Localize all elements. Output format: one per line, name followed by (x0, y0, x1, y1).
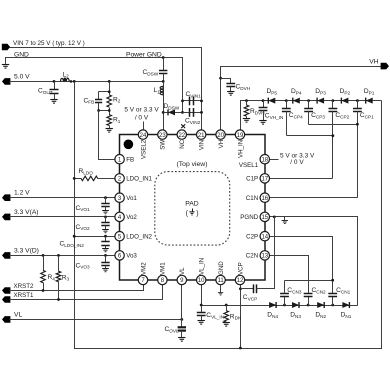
ground COUT (50, 100, 57, 104)
svg-text:XRST2: XRST2 (14, 283, 35, 290)
wire 5.0 V line (10, 81, 164, 83)
node XRST2 output terminal (2, 287, 10, 294)
junction VCP at CVCP (239, 287, 242, 290)
pin 24 circle (138, 130, 147, 139)
junction VL_IN node (200, 304, 203, 307)
node 3.3 V(D) output terminal (2, 252, 10, 259)
svg-text:3.3 V(A): 3.3 V(A) (14, 209, 39, 216)
svg-text:10: 10 (198, 278, 205, 284)
wire R2 top node bracket (109, 82, 111, 95)
ground CVO3 (102, 269, 109, 272)
junction RDVH tap (245, 99, 248, 102)
pin 20 circle (216, 130, 225, 139)
svg-text:NC: NC (179, 139, 186, 148)
pin 6 circle (115, 251, 124, 260)
wire XRST2 line to pin 7 VM2 (10, 281, 144, 291)
junction R3 top (57, 254, 60, 257)
svg-text:VCP: VCP (237, 262, 244, 275)
wire pin 9 VL riser (181, 281, 183, 327)
resistor RDVH (246, 101, 248, 106)
pin 5 circle (115, 232, 124, 241)
node VIN input terminal (2, 44, 10, 51)
pin 8 circle (158, 275, 167, 284)
svg-text:VL_IN: VL_IN (199, 258, 206, 275)
pin 16 circle (260, 193, 269, 202)
wire pin 17 C1P line (265, 178, 333, 180)
capacitor CCN1 (332, 297, 334, 306)
svg-text:20: 20 (217, 133, 224, 139)
ground RDN (223, 323, 230, 327)
ground CVL_IN (198, 321, 205, 325)
wire FB mid node (99, 110, 110, 112)
junction 5V feed at LDO_IN1 (73, 177, 76, 180)
ground GND input (2, 65, 9, 69)
node 1.2 V output terminal (2, 194, 10, 201)
junction FB node right (108, 109, 111, 112)
capacitor CDSW (163, 58, 165, 71)
svg-text:VH: VH (218, 140, 225, 149)
pin 15 circle (260, 212, 269, 221)
diode DP3 (317, 98, 324, 104)
wire pin 14 C2P line (265, 237, 333, 294)
svg-text:5 V or 3.3 V: 5 V or 3.3 V (124, 106, 159, 113)
pin 2 circle (115, 174, 124, 183)
pin 21 circle (197, 130, 206, 139)
junction pump node CCP1 (356, 99, 359, 102)
pin 9 circle (177, 275, 186, 284)
ground RDVH (243, 119, 250, 123)
capacitor CVO1 (105, 198, 107, 204)
junction CVO1 tap (104, 196, 107, 199)
svg-text:FB: FB (126, 157, 134, 164)
capacitor CCP1 (357, 101, 359, 109)
junction PGND at CVCP riser (273, 216, 276, 219)
wire pump bus CCP4-CCP2 to C1P (287, 135, 333, 137)
svg-text:11: 11 (217, 278, 224, 284)
svg-text:VIN: VIN (199, 140, 206, 150)
svg-text:3.3 V(D): 3.3 V(D) (14, 247, 39, 254)
pin 13 circle (260, 251, 269, 260)
node VH output terminal (381, 63, 389, 70)
ground R1 (106, 129, 113, 133)
svg-text:21: 21 (198, 133, 205, 139)
junction VCP riser at 5V bus (239, 347, 242, 350)
ground CDVH (227, 92, 234, 96)
junction bus at CCN1 column (331, 279, 334, 282)
junction pump node CCN1 (331, 304, 334, 307)
resistor RLDO (81, 176, 98, 181)
resistor R1 (107, 115, 112, 126)
capacitor CCP4 (286, 101, 288, 109)
svg-text:14: 14 (261, 234, 268, 240)
svg-text:Power GND: Power GND (126, 52, 162, 59)
junction SW at DDSW (162, 111, 165, 114)
wire FB sense to pin 1 (99, 111, 120, 160)
svg-text:18: 18 (261, 157, 268, 163)
node VL output terminal (2, 316, 10, 323)
wire GND / Power GND rail (6, 58, 183, 113)
wire pin 2 LDO_IN1 line (75, 178, 82, 180)
junction bus at CCP2 column (332, 134, 335, 137)
capacitor CCN2 (308, 297, 310, 306)
capacitor CVO3 (105, 256, 107, 263)
svg-text:17: 17 (261, 177, 268, 183)
diode DN2 (317, 302, 324, 308)
capacitor COVL (178, 327, 186, 330)
svg-text:VSEL1: VSEL1 (239, 162, 259, 169)
wire VH rail from pin 20 (221, 67, 382, 131)
pin 23 circle (158, 130, 167, 139)
wire pin 4 Vo2 line (10, 216, 120, 218)
pin 3 circle (115, 193, 124, 202)
pin 7 circle (138, 275, 147, 284)
junction SW column at Power GND (162, 56, 165, 59)
wire 5V vertical feed to LDO inputs and bottom bus (75, 82, 382, 349)
wire pin 18 VSEL1 stub (265, 159, 279, 161)
junction pump node CCP4 (285, 99, 288, 102)
wire pin 11 GND stub (220, 281, 222, 293)
junction R4 at XRST2 (42, 289, 45, 292)
inductor L2 (61, 78, 70, 81)
diode DP5 (268, 98, 275, 104)
svg-text:VM1: VM1 (160, 262, 167, 275)
node 3.3 V(A) output terminal (2, 214, 10, 221)
wire pin 15 PGND line to DN chain (265, 217, 358, 306)
svg-text:VM2: VM2 (140, 262, 147, 275)
ground PGND stub (284, 217, 286, 221)
svg-text:): ) (196, 210, 198, 217)
svg-text:23: 23 (159, 133, 166, 139)
svg-text:PGND: PGND (240, 214, 258, 221)
node XRST1 output terminal (2, 296, 10, 303)
ground pin 11 GND (218, 293, 223, 296)
junction on 5V line at COUT (53, 80, 56, 83)
node exposed PAD dashed outline (155, 172, 230, 246)
pin 17 circle (260, 174, 269, 183)
pin 18 circle (260, 155, 269, 164)
wire pin 3 Vo1 line (10, 197, 120, 199)
svg-text:22: 22 (178, 133, 185, 139)
resistor R3 pull-up (58, 256, 60, 272)
svg-text:XRST1: XRST1 (14, 292, 35, 299)
pin 10 circle (197, 275, 206, 284)
resistor R2 (107, 95, 112, 107)
diode DN4 (269, 302, 276, 308)
svg-text:/ 0 V: / 0 V (135, 114, 149, 121)
capacitor CVCP (241, 288, 254, 290)
svg-text:PAD: PAD (185, 201, 199, 208)
capacitor CDVH (221, 79, 231, 84)
junction FB node left (97, 109, 100, 112)
svg-text:GND: GND (218, 261, 225, 275)
junction 5V line at FB divider (108, 80, 111, 83)
capacitor CVL_IN (201, 306, 203, 313)
svg-text:C2P: C2P (246, 234, 258, 241)
svg-text:LDO_IN2: LDO_IN2 (126, 234, 152, 241)
svg-text:5.0 V: 5.0 V (14, 74, 30, 81)
pin 11 circle (216, 275, 225, 284)
ground CVO2 (102, 230, 109, 233)
capacitor CVO2 (105, 217, 107, 223)
svg-text:16: 16 (261, 196, 268, 202)
inductor L1 (163, 82, 165, 87)
svg-text:19: 19 (237, 133, 244, 139)
junction pump node CCN2 (307, 304, 310, 307)
junction SW column at 5V line (162, 80, 165, 83)
capacitor CVH_IN (263, 101, 265, 108)
junction bus at CCP1 column (356, 123, 359, 126)
ground CLDO_IN2 (102, 249, 109, 252)
capacitor CVIN1 (183, 100, 202, 102)
svg-text:VL: VL (179, 267, 186, 275)
diode DP4 (293, 98, 300, 104)
junction CVIN1 left (181, 100, 184, 103)
svg-text:24: 24 (140, 133, 147, 139)
resistor RDN (226, 306, 228, 311)
svg-text:1.2 V: 1.2 V (14, 190, 30, 197)
svg-text:15: 15 (261, 215, 268, 221)
ground CVO1 (102, 211, 109, 214)
svg-text:Vo2: Vo2 (126, 214, 137, 221)
diode DN3 (292, 302, 299, 308)
svg-text:SW: SW (160, 140, 167, 150)
wire pump bus CCP3-CCP1 to C1N (309, 124, 358, 126)
capacitor COUT (54, 82, 56, 90)
junction CVO2 tap (104, 216, 107, 219)
pin 1 circle (115, 155, 124, 164)
junction CVIN1 right (200, 100, 203, 103)
wire pin 16 C1N line (265, 197, 358, 199)
capacitor CCP3 (308, 101, 310, 109)
wire pin 13 C2N line (265, 256, 309, 294)
svg-text:12: 12 (237, 278, 244, 284)
pin 4 circle (115, 212, 124, 221)
junction RDN tap (225, 304, 228, 307)
svg-text:VIN 7 to 25 V ( typ. 12 V ): VIN 7 to 25 V ( typ. 12 V ) (13, 40, 85, 47)
wire VL line (10, 319, 182, 321)
junction GND rail at DDSW/CVIN2 (181, 111, 184, 114)
svg-text:Vo3: Vo3 (126, 253, 137, 260)
wire pin 6 Vo3 line (10, 255, 120, 257)
ground COVL (178, 338, 185, 342)
junction 5V feed at LDO_IN2 (73, 235, 76, 238)
wire VSEL2 stub to pin 24 (143, 122, 145, 131)
junction 5V line to LDO feed (73, 80, 76, 83)
svg-text:VH_IN: VH_IN (237, 140, 244, 158)
diode DP1 (366, 98, 373, 104)
svg-text:C1P: C1P (246, 176, 258, 183)
wire pin 10 VL_IN riser and DN chain line (202, 281, 358, 306)
svg-text:C2N: C2N (246, 253, 258, 260)
wire XRST1 line to pin 8 VM1 (10, 281, 163, 300)
ground CVH_IN (259, 121, 266, 125)
svg-text:VL: VL (14, 312, 22, 319)
svg-text:LDO_IN1: LDO_IN1 (126, 176, 152, 183)
capacitor CCN3 (284, 297, 286, 306)
pin 22 circle (177, 130, 186, 139)
op-amp U1 chip body outline (120, 135, 266, 281)
junction pump node CCN3 (283, 304, 286, 307)
capacitor CVIN2 (183, 112, 202, 114)
pin 19 circle (235, 130, 244, 139)
capacitor CFB (98, 92, 100, 100)
junction VH at CDVH (219, 77, 222, 80)
svg-text:C1N: C1N (246, 195, 258, 202)
wire pin 5 LDO_IN2 line (75, 236, 120, 238)
node 5.0 V output terminal (2, 78, 10, 85)
svg-text:VSEL2: VSEL2 (140, 139, 147, 159)
svg-text:13: 13 (261, 254, 268, 260)
junction R4 top (42, 254, 45, 257)
wire VH_IN node line from pin 19 (241, 101, 382, 131)
svg-text:/ 0 V: / 0 V (290, 159, 304, 166)
svg-text:Vo1: Vo1 (126, 195, 137, 202)
node NC mark above pin 22 (181, 124, 185, 128)
junction R2 top (108, 90, 111, 93)
diode DDSW (164, 112, 183, 114)
junction CLDO_IN2 tap (104, 235, 107, 238)
pin 12 circle (235, 275, 244, 284)
diode DP2 (341, 98, 348, 104)
junction pump node CCP3 (307, 99, 310, 102)
junction R3 at XRST1 (57, 298, 60, 301)
diode DN1 (342, 302, 349, 308)
node pin-1 orientation dot (124, 140, 134, 150)
capacitor CLDO_IN2 (105, 237, 107, 242)
resistor R4 pull-up (43, 256, 45, 271)
pin 14 circle (260, 232, 269, 241)
wire VIN rail top (10, 48, 202, 131)
junction VL at pin 9 riser (180, 318, 183, 321)
junction CVH_IN tap (262, 99, 265, 102)
wire pin 12 VCP riser to 5V bus (240, 281, 242, 349)
wire pump bus CCN3-CCN1 to C2P (285, 280, 333, 282)
junction CVO3 tap (104, 254, 107, 257)
junction pump node CCP2 (332, 99, 335, 102)
junction CVIN2 right (200, 111, 203, 114)
capacitor CCP2 (332, 101, 334, 109)
svg-text:VH: VH (369, 59, 378, 66)
svg-text:(Top view): (Top view) (177, 161, 208, 168)
